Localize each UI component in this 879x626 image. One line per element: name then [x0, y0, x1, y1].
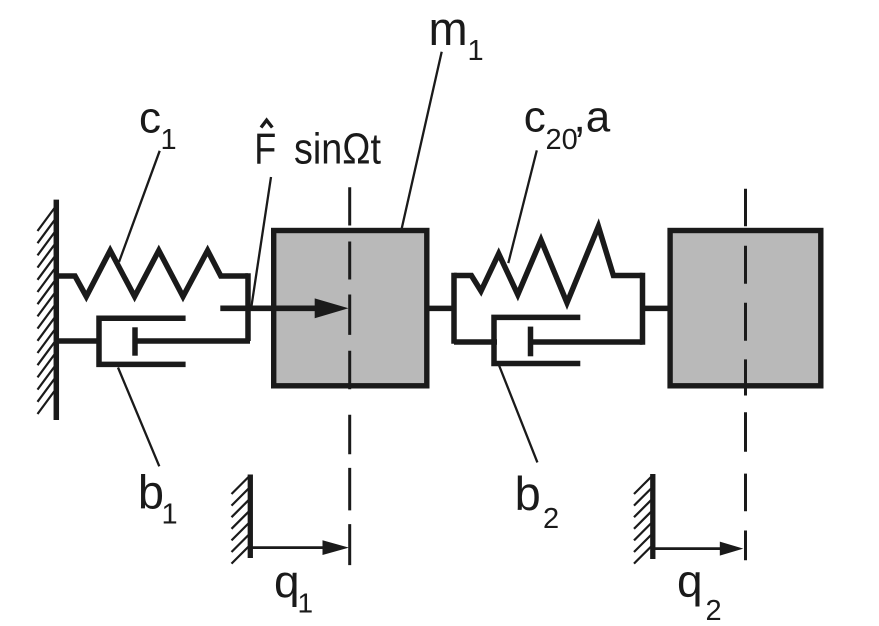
leader c20a: [508, 150, 537, 263]
svg-text:1: 1: [162, 499, 178, 531]
damper b2 rod: [531, 339, 643, 345]
dashed axis q2: [744, 189, 747, 561]
q2 arrow head: [720, 542, 744, 556]
force arrow shaft: [220, 305, 318, 311]
svg-text:2: 2: [543, 503, 559, 535]
damper b2 piston: [528, 327, 534, 357]
q1 reference wall line: [248, 475, 253, 559]
leader b1: [118, 368, 159, 467]
svg-text:F: F: [254, 124, 276, 173]
assembly2 right vertical: [640, 273, 646, 345]
svg-text:,a: ,a: [574, 92, 611, 141]
svg-text:q: q: [274, 555, 300, 607]
dashed axis q1: [348, 187, 351, 565]
q2 reference wall line: [650, 474, 655, 559]
damper b1 rod: [135, 338, 250, 344]
svg-text:b: b: [138, 466, 164, 519]
damper b1 cylinder: [99, 318, 186, 364]
assembly2 left vertical: [451, 273, 457, 344]
q1 reference wall hatching: [232, 477, 249, 564]
svg-text:1: 1: [298, 588, 314, 619]
leader F: [252, 177, 272, 306]
connector mass1 to assembly2: [426, 306, 456, 312]
leader b2: [499, 365, 538, 463]
svg-text:m: m: [429, 2, 468, 55]
spring c20 progressive: [454, 226, 643, 302]
q1 arrow head: [323, 540, 349, 555]
svg-text:b: b: [515, 467, 541, 520]
q2 reference wall hatching: [634, 477, 651, 564]
svg-text:c: c: [524, 92, 546, 141]
leader m1: [401, 52, 442, 231]
damper b2 cylinder: [494, 317, 580, 363]
damper b1 piston: [132, 327, 138, 355]
F hat accent: [261, 120, 272, 127]
svg-text:2: 2: [706, 595, 722, 626]
mass m1: [274, 231, 427, 386]
svg-text:sinΩt: sinΩt: [294, 124, 381, 173]
svg-text:1: 1: [468, 35, 484, 67]
q2 arrow shaft: [655, 547, 722, 550]
wall left hatching: [38, 208, 55, 414]
spring c1: [56, 251, 248, 297]
connector vertical 1: [245, 273, 251, 341]
damper b2 connect line: [454, 339, 497, 345]
mass m2: [670, 231, 821, 386]
q1 arrow shaft: [252, 546, 326, 549]
damper b1 connect line: [56, 338, 101, 344]
wall left line: [54, 200, 60, 420]
force arrow head: [315, 298, 349, 318]
leader c1: [119, 151, 160, 262]
svg-text:q: q: [677, 555, 703, 607]
svg-text:1: 1: [161, 124, 177, 156]
svg-text:c: c: [139, 94, 161, 143]
connector assembly2 to mass2: [643, 306, 671, 312]
